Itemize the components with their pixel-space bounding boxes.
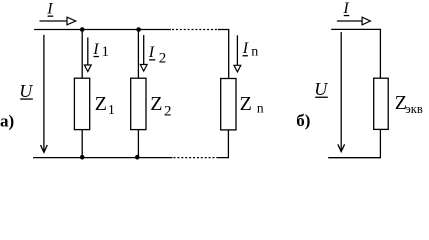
svg-text:U: U — [314, 79, 328, 99]
label: In with underline — [242, 40, 258, 60]
impedance Z1 box — [74, 78, 89, 129]
label: Zn — [240, 93, 264, 115]
label: I2 with underline — [148, 44, 167, 66]
wire: branch 1 upper segment — [81, 30, 83, 79]
label: U (right circuit) with underline — [314, 79, 328, 99]
label: Z2 — [150, 93, 171, 120]
svg-text:Z: Z — [240, 93, 252, 115]
arrow: current I (right circuit), open triangle head — [337, 17, 371, 25]
wire: left circuit bottom bus (solid part) — [33, 157, 173, 159]
impedance Zn box — [221, 79, 236, 130]
svg-text:I: I — [342, 0, 349, 17]
wire: left circuit top bus (solid part) — [34, 29, 171, 31]
svg-text:I: I — [92, 41, 99, 58]
svg-text:Z: Z — [95, 93, 107, 115]
svg-text:1: 1 — [108, 103, 115, 118]
node: bottom bus junction at branch 1 — [80, 155, 85, 160]
arrow: current I (left circuit), open triangle head — [40, 17, 76, 25]
svg-text:n: n — [251, 45, 258, 60]
node: bottom bus junction at branch 2 — [135, 155, 140, 160]
svg-text:Z: Z — [150, 93, 162, 115]
svg-text:2: 2 — [164, 103, 172, 119]
label: I1 with underline — [92, 41, 109, 60]
wire: bottom bus right corner into branch n — [219, 130, 229, 158]
wire: branch 1 lower segment — [81, 130, 83, 158]
label: Zekv — [395, 92, 423, 116]
arrow: current I1, open triangle head — [84, 38, 91, 72]
svg-text:б): б) — [296, 111, 310, 130]
wire: Zekv lower segment — [379, 129, 381, 157]
wire: left circuit bottom bus dotted section — [174, 157, 220, 159]
impedance Zekv box — [374, 78, 389, 129]
impedance Z2 box — [131, 78, 146, 129]
svg-text:2: 2 — [159, 50, 167, 66]
label: I (right circuit) with underline — [342, 0, 349, 17]
label: Z1 — [95, 93, 115, 118]
arrow: voltage U (right circuit) — [338, 32, 345, 152]
wire: top bus right corner into branch n — [218, 30, 229, 79]
arrow: current In, open triangle head — [234, 35, 241, 72]
node: top bus junction at branch 2 — [136, 27, 141, 32]
arrow: voltage U (left circuit) — [41, 35, 48, 152]
arrow: current I2, open triangle head — [140, 35, 147, 71]
wire: branch 2 lower segment — [137, 130, 139, 158]
svg-text:I: I — [46, 0, 53, 17]
svg-text:1: 1 — [102, 44, 110, 60]
label: I (left circuit) with underline — [46, 0, 53, 17]
node: top bus junction at branch 1 — [80, 27, 85, 32]
label: U (left circuit) with underline — [19, 81, 33, 101]
wire: right circuit bottom bus — [328, 157, 381, 159]
svg-text:а): а) — [0, 111, 14, 130]
wire: left circuit top bus dotted section — [172, 29, 219, 31]
wire: branch 2 upper segment — [137, 30, 139, 79]
wire: right circuit top bus with corner into Zekv — [331, 29, 380, 78]
svg-text:I: I — [148, 44, 155, 61]
svg-text:U: U — [19, 81, 33, 101]
svg-text:экв: экв — [405, 102, 422, 116]
svg-text:I: I — [242, 40, 249, 57]
svg-text:n: n — [257, 100, 264, 115]
